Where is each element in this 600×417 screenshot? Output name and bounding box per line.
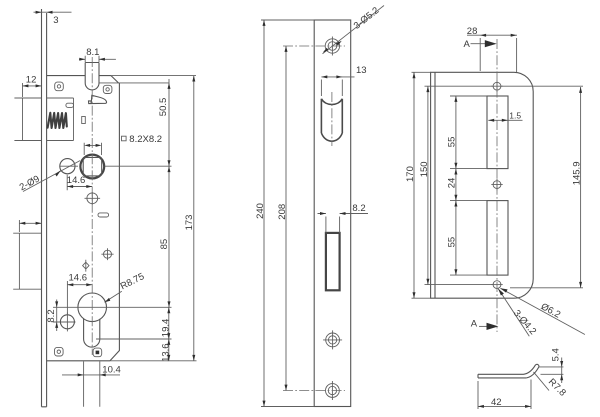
unlabeled dim (lower left box) [19, 220, 41, 232]
upper hole dia 9 [60, 159, 75, 174]
folded lip second line [434, 72, 436, 298]
dimension 55 lower [455, 201, 457, 276]
dimension 5.4 [539, 358, 564, 384]
strike plate outline [431, 72, 534, 298]
small diamond marker [83, 260, 89, 272]
follower boss circle (thick) [80, 155, 104, 179]
middle countersunk hole [323, 330, 342, 349]
top countersunk hole [325, 37, 339, 56]
svg-text:42: 42 [491, 397, 502, 408]
small slot [98, 213, 109, 217]
latch guard wedge [89, 95, 107, 103]
svg-text:55: 55 [447, 137, 458, 148]
spring coil [48, 113, 67, 128]
svg-text:12: 12 [26, 74, 37, 85]
hole with cross (107.5,254.2) [101, 248, 113, 260]
hole centerline bottom [283, 390, 345, 392]
svg-text:145.9: 145.9 [571, 162, 582, 186]
vertical centerline [91, 57, 93, 355]
extension at follower center [59, 165, 171, 167]
svg-text:3: 3 [53, 15, 58, 26]
dimension 145.9 [501, 86, 583, 288]
square width dim arrows [84, 143, 101, 155]
dimension 170 [413, 72, 415, 298]
dimension 19.4 [168, 307, 170, 339]
svg-text:85: 85 [159, 239, 170, 250]
dimension 14.6 upper [67, 175, 92, 190]
leader phi6.2 [501, 288, 585, 334]
svg-text:A: A [471, 318, 478, 329]
svg-text:170: 170 [405, 166, 416, 182]
hole centerline top [283, 45, 345, 47]
extension lines left [412, 72, 494, 298]
main centerline [496, 39, 498, 332]
dimension 8.2 (deadbolt width) [318, 213, 369, 215]
spring tab [66, 103, 74, 107]
svg-text:55: 55 [447, 237, 458, 248]
dimension 240 [261, 20, 314, 407]
screw hole middle [491, 179, 502, 191]
small rounded screw post (107.6,89.4) [103, 85, 112, 93]
svg-text:A: A [464, 39, 471, 50]
faceplate centerline [331, 92, 333, 146]
svg-text:50.5: 50.5 [158, 98, 169, 117]
spring housing box [47, 98, 74, 141]
left auxiliary box (upper) [14, 98, 41, 141]
svg-text:19.4: 19.4 [160, 319, 171, 338]
screw post bottom-left [55, 347, 64, 356]
screw hole bottom [491, 281, 502, 289]
svg-text:24: 24 [447, 178, 458, 189]
euro cylinder hole: circle [78, 293, 107, 322]
dimension 50.5 [168, 79, 170, 166]
dimension 208 [285, 46, 287, 391]
case top extension line to dims [111, 75, 196, 77]
dimension 8.2 left [53, 300, 172, 332]
dimension 13.6 [168, 339, 170, 361]
lower cutout [487, 201, 508, 276]
upper cutout [487, 96, 508, 169]
case bottom extension [110, 360, 197, 362]
spindle square hole 8.2x8.2 [83, 157, 102, 176]
faceplate edge strip [42, 9, 47, 407]
label square 8.2X8.2 [122, 136, 127, 141]
svg-text:1.5: 1.5 [509, 110, 521, 120]
svg-text:173: 173 [184, 215, 195, 231]
svg-text:8.1: 8.1 [86, 47, 99, 58]
deadbolt cutout extension lines [326, 217, 340, 233]
dimension 173 [193, 76, 195, 361]
svg-text:5.4: 5.4 [551, 348, 562, 361]
latch cutout [321, 99, 342, 141]
screw post bottom-center [93, 348, 102, 357]
svg-text:14.6: 14.6 [69, 273, 88, 284]
stem bottom extension [96, 338, 172, 340]
svg-text:208: 208 [277, 204, 288, 220]
dimension 28 [467, 35, 517, 72]
dimension 55 upper [455, 96, 457, 169]
left auxiliary box (lower) [13, 233, 41, 289]
small rectangle hole near centerline [82, 117, 86, 124]
deadbolt cutout (thick) [326, 233, 340, 290]
small rounded screw post (59,86.4) [55, 82, 64, 91]
dimension 24 [455, 169, 457, 201]
latch bolt [85, 63, 99, 90]
svg-text:8.2X8.2: 8.2X8.2 [129, 134, 162, 145]
dimension 10.4 [62, 362, 120, 407]
leader R8.75 [105, 291, 122, 302]
leader 3-phi5.2 [323, 6, 385, 54]
SECTION A-A bent profile [478, 374, 526, 378]
svg-text:8.2: 8.2 [352, 203, 365, 214]
svg-text:14.6: 14.6 [67, 175, 86, 186]
label 2-phi9 [18, 174, 42, 194]
dimension 150 [427, 86, 429, 284]
svg-text:13.6: 13.6 [160, 343, 171, 362]
svg-text:8.2: 8.2 [46, 309, 57, 322]
dimension 8.1 (latch bolt width) [79, 56, 116, 62]
dimension 3 (faceplate thickness) [34, 11, 72, 13]
dimension 12 (left box) [23, 83, 42, 97]
svg-text:150: 150 [419, 161, 430, 177]
leader 3-phi4.2 [498, 289, 529, 336]
bottom countersunk hole [326, 381, 340, 400]
leader 2-d9 [23, 161, 80, 192]
latch shoulder extension line [99, 82, 169, 84]
faceplate outline [314, 20, 351, 407]
svg-text:13: 13 [356, 65, 367, 76]
dimension 42 [478, 380, 531, 410]
lower hole dia 9 [60, 313, 74, 332]
dimension 14.6 lower [67, 281, 92, 316]
euro cylinder stem [84, 319, 100, 347]
lock case outline [47, 76, 120, 361]
dimension 13 (latch cutout width) [321, 77, 354, 96]
svg-text:240: 240 [255, 203, 266, 219]
svg-text:28: 28 [467, 26, 478, 37]
hole with cross (92.3,198.3) [85, 192, 101, 205]
screw hole top [491, 81, 502, 93]
dimension 85 [168, 166, 170, 307]
svg-text:10.4: 10.4 [102, 365, 121, 376]
dimension 1.5 [488, 119, 522, 121]
leader R7.8 [534, 372, 550, 391]
